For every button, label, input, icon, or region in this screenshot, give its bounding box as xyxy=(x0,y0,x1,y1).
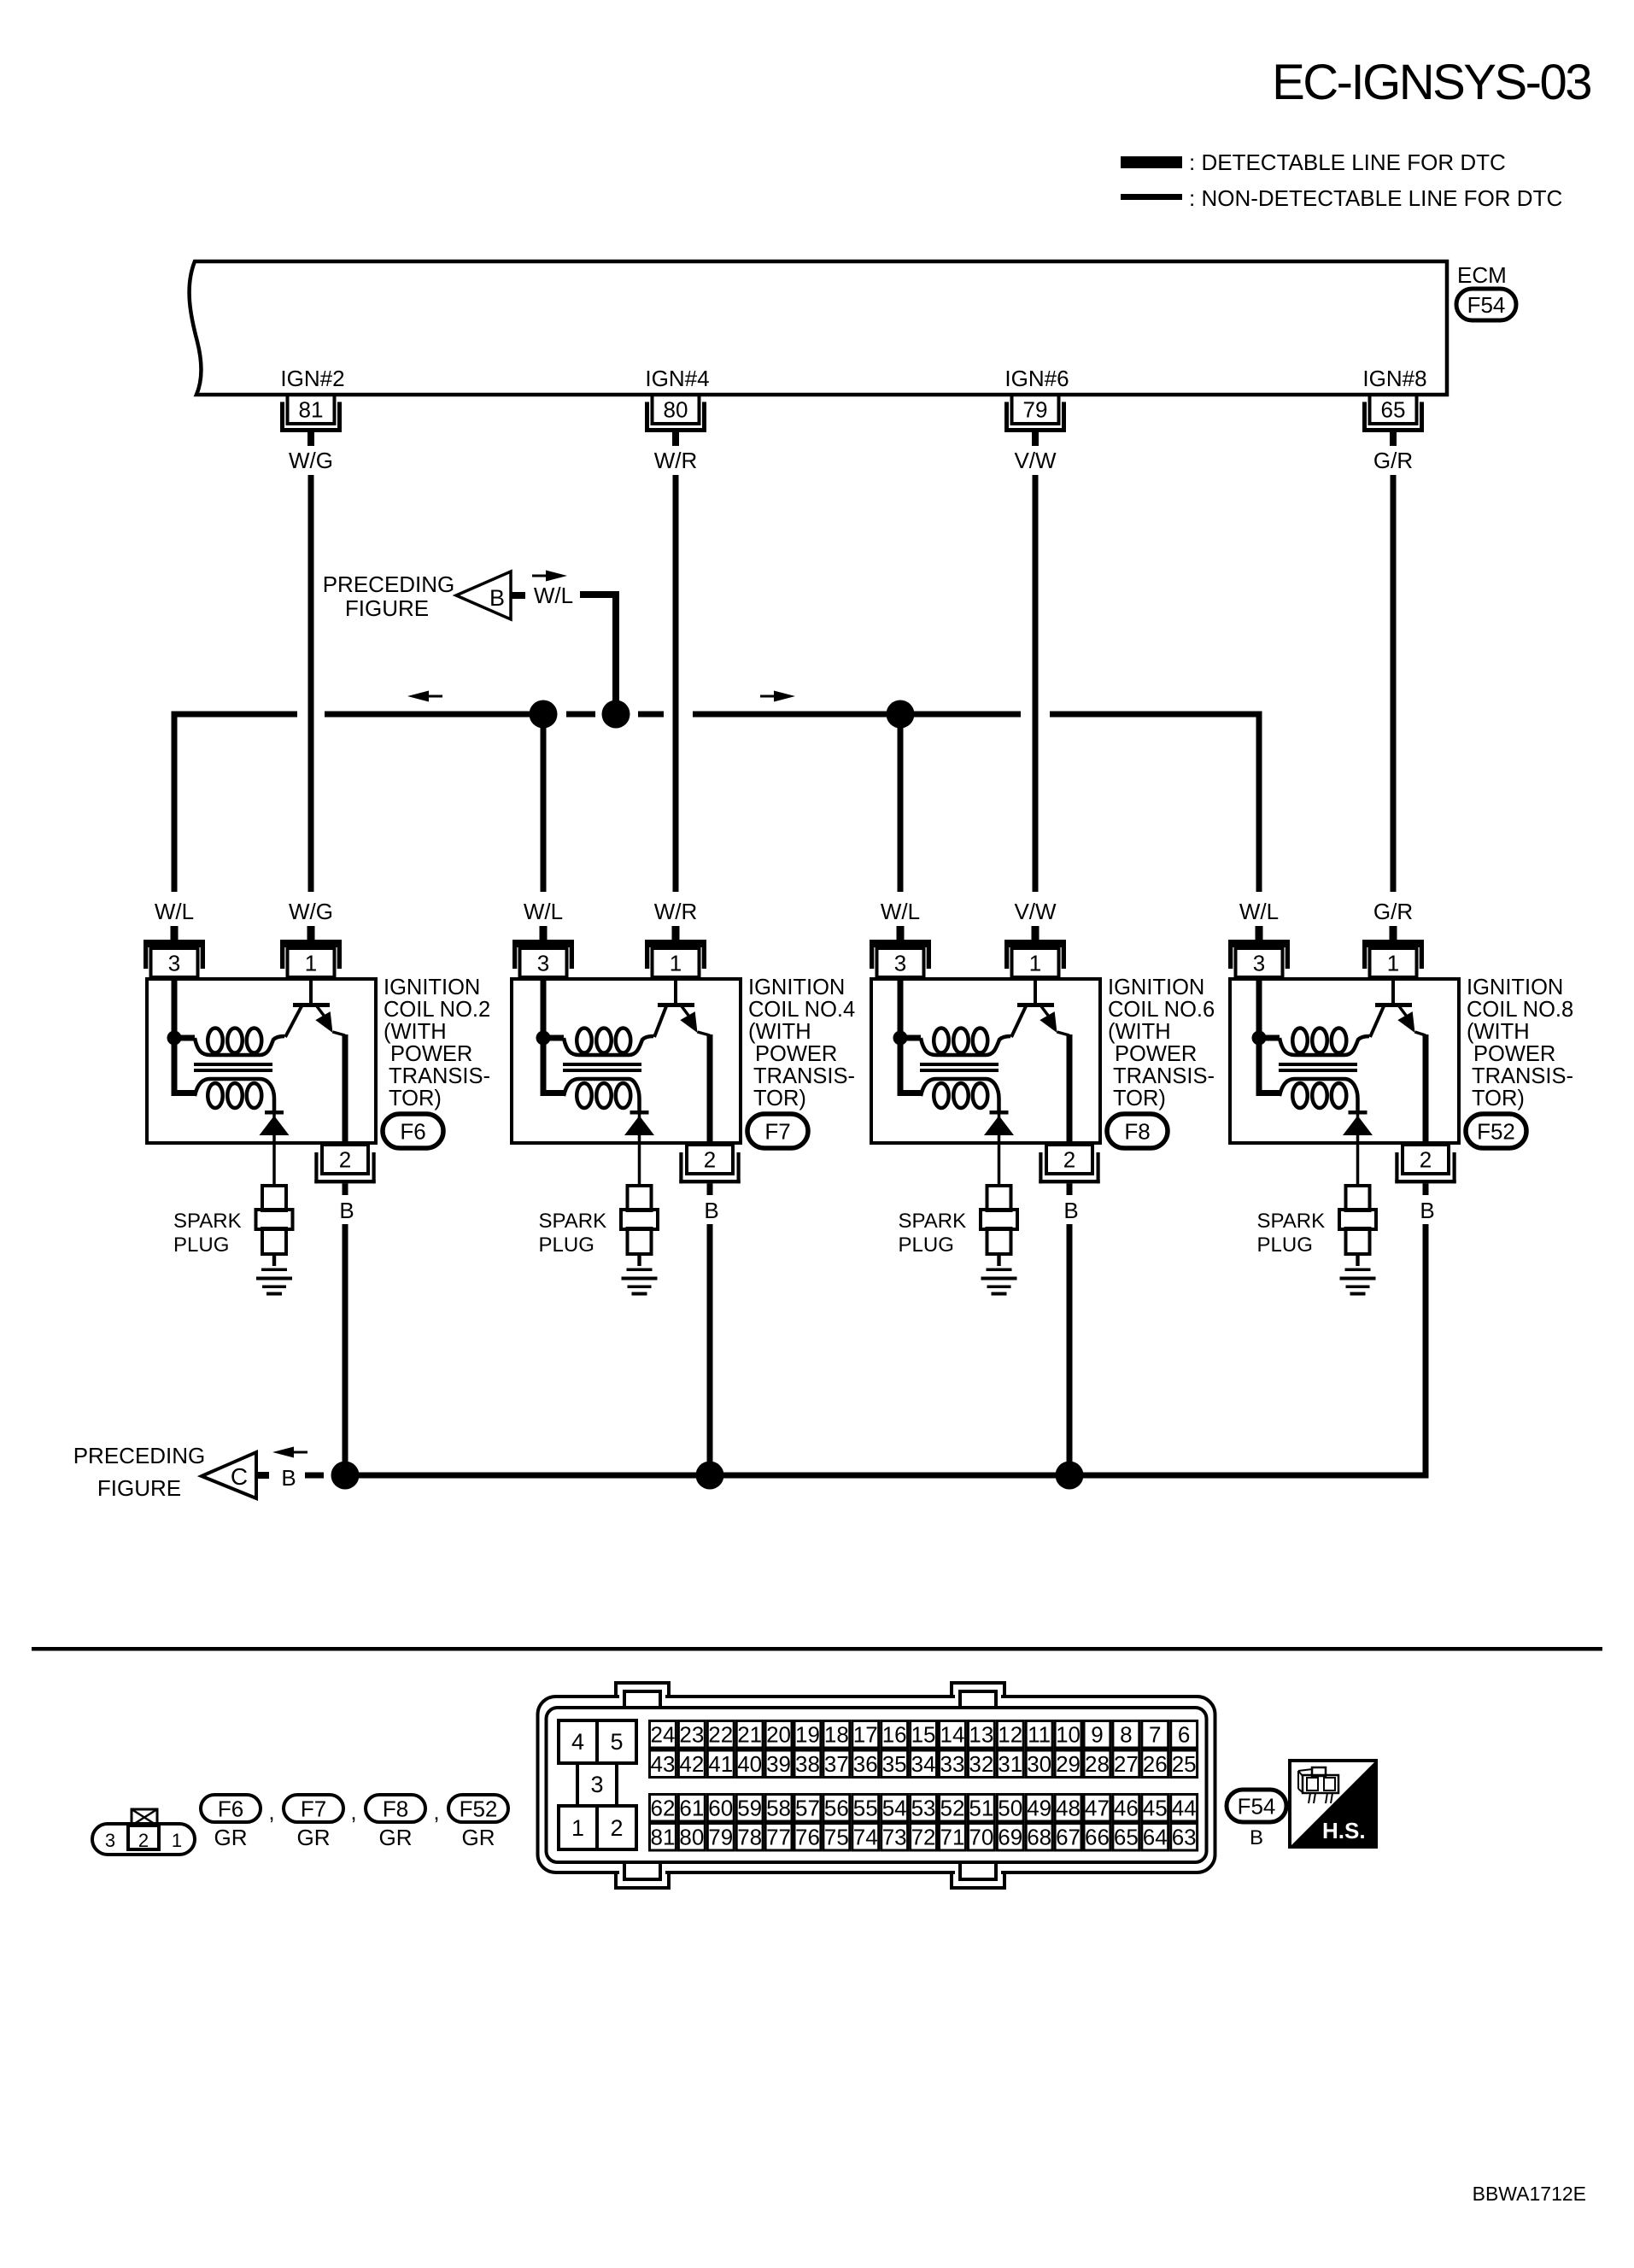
ignition coil No.2 pin 2 xyxy=(314,1145,375,1195)
W/L bus dash xyxy=(566,712,595,718)
svg-text:80: 80 xyxy=(679,1825,704,1850)
ignition coil No.6 pin 2 xyxy=(1039,1145,1099,1195)
svg-text:F6: F6 xyxy=(400,1118,425,1144)
wire color label W/G (above coil) xyxy=(289,899,333,924)
wire color label B (ground bus) xyxy=(281,1465,296,1491)
coil No.4 emitter wire to pin 2 xyxy=(707,1034,713,1143)
ECM connector key cavity 5 xyxy=(597,1720,636,1763)
svg-text:71: 71 xyxy=(940,1825,964,1850)
wire G/R from ECM pin 65 to ignition coil pin 1 xyxy=(1391,475,1397,892)
stub from triangle C xyxy=(255,1472,269,1479)
coil No.6 pin3 internal wire xyxy=(898,979,904,1038)
ignition coil No.2 pin 3 xyxy=(143,926,205,977)
ignition coil No.4 pin 3 xyxy=(512,926,574,977)
svg-text:21: 21 xyxy=(737,1722,762,1748)
svg-text:IGNITION: IGNITION xyxy=(1467,976,1563,999)
svg-text:POWER: POWER xyxy=(1473,1042,1555,1066)
coil No.4 diode D xyxy=(624,1111,654,1186)
svg-text:80: 80 xyxy=(664,397,688,423)
svg-text:W/G: W/G xyxy=(289,899,333,924)
svg-text:54: 54 xyxy=(882,1796,907,1821)
svg-text:F7: F7 xyxy=(301,1796,326,1821)
svg-text:(WITH: (WITH xyxy=(384,1020,447,1044)
wire W/L branch down to coil No.6 pin 3 xyxy=(898,714,904,892)
svg-text:TRANSIS-: TRANSIS- xyxy=(1472,1064,1573,1088)
svg-text:POWER: POWER xyxy=(755,1042,837,1066)
coil No.4 pin3 internal wire xyxy=(541,979,547,1038)
svg-text:40: 40 xyxy=(737,1751,762,1777)
ignition coil No.2 (F6) box xyxy=(147,979,376,1143)
svg-text:35: 35 xyxy=(882,1751,907,1777)
ECM connector bottom tab 2 xyxy=(952,1861,1004,1888)
comma xyxy=(433,1799,439,1825)
coil No.8 pin3 internal wire xyxy=(1256,979,1262,1038)
svg-text:IGN#8: IGN#8 xyxy=(1362,366,1426,391)
svg-text:58: 58 xyxy=(766,1796,791,1821)
wire color label W/L (above coil pin 3 at x=1474) xyxy=(1239,899,1279,924)
svg-text:TOR): TOR) xyxy=(753,1087,806,1111)
coil connector cavity numbers xyxy=(105,1830,182,1851)
ground symbol (spark plug No.2) xyxy=(256,1254,292,1296)
ECM pin 80 (IGN#4) xyxy=(647,395,705,446)
ignition coil No.6 pin 3 xyxy=(870,926,931,977)
coil connector cavity 2 box xyxy=(128,1826,159,1849)
ground bus dash xyxy=(305,1473,324,1479)
connector ref F7 (bottom) xyxy=(284,1795,343,1822)
svg-text:78: 78 xyxy=(737,1825,762,1850)
direction arrow (left) on W/L bus xyxy=(407,691,442,702)
wire color label B (coil No.4) xyxy=(704,1198,718,1223)
svg-text:2: 2 xyxy=(704,1147,716,1173)
svg-text:BBWA1712E: BBWA1712E xyxy=(1473,2183,1586,2205)
ignition coil No.8 pin 1 xyxy=(1362,926,1424,977)
svg-text:SPARK: SPARK xyxy=(899,1210,967,1233)
svg-text:70: 70 xyxy=(969,1825,993,1850)
coil No.6 emitter wire to pin 2 xyxy=(1067,1034,1073,1143)
ground symbol (spark plug No.6) xyxy=(981,1254,1017,1296)
coil No.4 power transistor Q xyxy=(654,979,710,1037)
comma xyxy=(350,1799,356,1825)
svg-text:: DETECTABLE LINE FOR DTC: : DETECTABLE LINE FOR DTC xyxy=(1189,149,1506,175)
svg-text:32: 32 xyxy=(969,1751,993,1777)
svg-text:25: 25 xyxy=(1172,1751,1197,1777)
comma xyxy=(268,1799,274,1825)
svg-text:GR: GR xyxy=(297,1825,331,1850)
svg-text:13: 13 xyxy=(969,1722,993,1748)
svg-text:65: 65 xyxy=(1381,397,1406,423)
svg-text:48: 48 xyxy=(1056,1796,1081,1821)
svg-text:52: 52 xyxy=(940,1796,964,1821)
svg-text:SPARK: SPARK xyxy=(1257,1210,1326,1233)
ground bus segment xyxy=(345,1473,710,1479)
coil No.4 secondary winding xyxy=(541,1038,640,1112)
svg-text:67: 67 xyxy=(1056,1825,1081,1850)
svg-text:POWER: POWER xyxy=(390,1042,472,1066)
svg-text:B: B xyxy=(704,1198,718,1223)
wire B from coil No.8 pin 2 to ground bus (corner) xyxy=(1069,1224,1426,1475)
svg-text:F7: F7 xyxy=(764,1118,790,1144)
wire color GR labels xyxy=(214,1825,495,1850)
svg-text:14: 14 xyxy=(940,1722,964,1748)
svg-text:75: 75 xyxy=(824,1825,849,1850)
coil connector latch tab with X xyxy=(132,1809,157,1826)
svg-text:6: 6 xyxy=(1178,1722,1190,1748)
svg-text:IGN#2: IGN#2 xyxy=(280,366,344,391)
svg-text:(WITH: (WITH xyxy=(1467,1020,1530,1044)
coil No.6 internal junction xyxy=(893,1031,908,1046)
connector ref F52 xyxy=(1466,1114,1526,1148)
svg-text:: NON-DETECTABLE LINE FOR DTC: : NON-DETECTABLE LINE FOR DTC xyxy=(1189,185,1562,211)
ignition coil No.6 name label xyxy=(1108,976,1215,1111)
svg-text:PRECEDING: PRECEDING xyxy=(323,571,455,597)
stub from triangle B xyxy=(511,592,525,599)
svg-text:24: 24 xyxy=(650,1722,675,1748)
svg-text:3: 3 xyxy=(894,951,906,976)
svg-text:F54: F54 xyxy=(1238,1793,1276,1819)
svg-text:G/R: G/R xyxy=(1373,899,1413,924)
svg-text:77: 77 xyxy=(766,1825,791,1850)
coil No.8 internal junction xyxy=(1252,1031,1267,1046)
svg-text:IGNITION: IGNITION xyxy=(1108,976,1204,999)
ECM connector shell outline xyxy=(538,1697,1215,1872)
wire color label W/L (above coil pin 3 at x=1054) xyxy=(881,899,920,924)
ignition coil No.6 (F8) box xyxy=(871,979,1100,1143)
svg-text:F8: F8 xyxy=(1124,1118,1150,1144)
svg-text:60: 60 xyxy=(708,1796,733,1821)
svg-text:53: 53 xyxy=(911,1796,936,1821)
svg-text:12: 12 xyxy=(998,1722,1022,1748)
svg-text:V/W: V/W xyxy=(1014,448,1057,473)
svg-text:TOR): TOR) xyxy=(1113,1087,1166,1111)
svg-text:ECM: ECM xyxy=(1457,262,1507,288)
coil No.2 pin3 internal wire xyxy=(172,979,178,1038)
coil No.4 primary winding xyxy=(543,1029,653,1056)
ignition coil No.2 pin 1 xyxy=(280,926,342,977)
svg-text:81: 81 xyxy=(650,1825,675,1850)
W/L bus segment (to V/W crossing) xyxy=(693,712,1021,718)
svg-text:B: B xyxy=(489,585,505,611)
connector ref F8 xyxy=(1107,1114,1168,1148)
preceding figure note (B) text xyxy=(323,571,455,621)
svg-text:POWER: POWER xyxy=(1115,1042,1197,1066)
ground bus segment xyxy=(710,1473,1069,1479)
svg-text:34: 34 xyxy=(911,1751,936,1777)
svg-text:79: 79 xyxy=(708,1825,733,1850)
svg-text:16: 16 xyxy=(882,1722,907,1748)
W/L bus segment (gap at W/G crossing) xyxy=(325,712,543,718)
svg-text:GR: GR xyxy=(379,1825,413,1850)
off-page connector triangle B xyxy=(456,571,511,619)
ignition coil No.4 name label xyxy=(748,976,855,1111)
svg-text:10: 10 xyxy=(1056,1722,1081,1748)
wire B from coil No.4 pin 2 to ground bus xyxy=(707,1224,713,1475)
svg-text:44: 44 xyxy=(1172,1796,1197,1821)
ignition coil No.8 (F52) box xyxy=(1230,979,1459,1143)
svg-text:29: 29 xyxy=(1056,1751,1081,1777)
svg-text:F52: F52 xyxy=(1477,1118,1515,1144)
svg-text:B: B xyxy=(1420,1198,1434,1223)
W/L bus dash xyxy=(638,712,664,718)
ECM terminal label IGN#2 xyxy=(280,366,344,391)
coil No.2 power transistor Q xyxy=(285,979,345,1037)
spark plug (coil No.6) xyxy=(981,1186,1017,1254)
svg-text:IGNITION: IGNITION xyxy=(384,976,480,999)
svg-text:27: 27 xyxy=(1114,1751,1139,1777)
svg-text:38: 38 xyxy=(795,1751,820,1777)
ground symbol (spark plug No.8) xyxy=(1340,1254,1376,1296)
ignition coil No.4 (F7) box xyxy=(512,979,741,1143)
ignition coil No.2 name label xyxy=(384,976,490,1111)
coil No.6 power transistor Q xyxy=(1011,979,1069,1037)
svg-text:B: B xyxy=(339,1198,354,1223)
ECM pin 65 (IGN#8) xyxy=(1365,395,1422,446)
svg-text:TOR): TOR) xyxy=(1472,1087,1525,1111)
ignition coil No.4 pin 2 xyxy=(679,1145,740,1195)
connector ref F8 (bottom) xyxy=(366,1795,425,1822)
svg-text:73: 73 xyxy=(882,1825,907,1850)
svg-text:1: 1 xyxy=(172,1830,182,1851)
svg-text:81: 81 xyxy=(299,397,324,423)
legend non-detectable line text xyxy=(1189,185,1562,211)
coil No.6 transformer core xyxy=(920,1063,999,1072)
svg-text:64: 64 xyxy=(1143,1825,1168,1850)
coil No.4 internal junction xyxy=(536,1031,551,1046)
svg-text:B: B xyxy=(281,1465,296,1491)
ECM connector key cavity 3 xyxy=(577,1763,617,1806)
ECM box (torn left edge) xyxy=(190,261,1447,395)
ECM terminal label IGN#6 xyxy=(1004,366,1069,391)
svg-text:,: , xyxy=(268,1799,274,1825)
legend non-detectable line sample bar xyxy=(1121,194,1182,200)
wire color label B (F54) xyxy=(1250,1826,1263,1849)
ECM connector top tab 1 xyxy=(616,1683,669,1708)
svg-text:3: 3 xyxy=(537,951,549,976)
svg-text:B: B xyxy=(1250,1826,1263,1849)
svg-text:PLUG: PLUG xyxy=(539,1234,594,1257)
wire W/G from ECM pin 81 to ignition coil pin 1 xyxy=(308,475,314,892)
ECM terminal label IGN#8 xyxy=(1362,366,1426,391)
spark plug (coil No.6) label xyxy=(899,1210,967,1257)
wire B from coil No.2 pin 2 to ground bus xyxy=(343,1224,348,1475)
connector ref F6 xyxy=(383,1114,443,1148)
figure code BBWA1712E xyxy=(1473,2183,1586,2205)
data monitor H.S. badge xyxy=(1290,1761,1376,1847)
svg-text:W/L: W/L xyxy=(881,899,920,924)
ECM connector bottom tab 1 xyxy=(616,1861,669,1888)
svg-text:4: 4 xyxy=(571,1729,584,1755)
svg-text:TRANSIS-: TRANSIS- xyxy=(753,1064,855,1088)
svg-text:18: 18 xyxy=(824,1722,849,1748)
svg-text:30: 30 xyxy=(1027,1751,1051,1777)
svg-text:W/L: W/L xyxy=(1239,899,1279,924)
svg-text:W/L: W/L xyxy=(524,899,563,924)
svg-text:COIL NO.2: COIL NO.2 xyxy=(384,998,490,1022)
svg-text:63: 63 xyxy=(1172,1825,1197,1850)
svg-text:47: 47 xyxy=(1085,1796,1110,1821)
ECM terminal label IGN#4 xyxy=(645,366,709,391)
svg-text:PLUG: PLUG xyxy=(1257,1234,1313,1257)
svg-text:SPARK: SPARK xyxy=(173,1210,242,1233)
svg-text:11: 11 xyxy=(1028,1722,1051,1748)
svg-text:72: 72 xyxy=(911,1825,936,1850)
svg-text:3: 3 xyxy=(105,1830,115,1851)
spark plug (coil No.8) label xyxy=(1257,1210,1326,1257)
junction ground bus / coil No.4 xyxy=(696,1462,724,1490)
connector ref F52 (bottom) xyxy=(448,1795,508,1822)
svg-text:GR: GR xyxy=(214,1825,248,1850)
svg-text:TRANSIS-: TRANSIS- xyxy=(389,1064,490,1088)
svg-text:W/R: W/R xyxy=(654,448,698,473)
wire W/L branch down to coil No.4 pin 3 xyxy=(541,714,547,892)
coil No.4 transformer core xyxy=(563,1063,641,1072)
svg-text:TRANSIS-: TRANSIS- xyxy=(1113,1064,1215,1088)
svg-text:33: 33 xyxy=(940,1751,964,1777)
direction arrow (right) above W/L xyxy=(532,571,567,582)
coil No.2 emitter wire to pin 2 xyxy=(343,1034,348,1143)
coil No.6 secondary winding xyxy=(898,1038,999,1112)
coil No.8 transformer core xyxy=(1279,1063,1357,1072)
ignition coil No.8 pin 2 xyxy=(1395,1145,1455,1195)
svg-text:15: 15 xyxy=(911,1722,936,1748)
spark plug (coil No.2) label xyxy=(173,1210,242,1257)
svg-text:49: 49 xyxy=(1027,1796,1051,1821)
svg-text:41: 41 xyxy=(708,1751,733,1777)
svg-text:G/R: G/R xyxy=(1373,448,1413,473)
coil No.6 diode D xyxy=(984,1111,1014,1186)
svg-text:68: 68 xyxy=(1027,1825,1051,1850)
ground symbol (spark plug No.4) xyxy=(622,1254,658,1296)
connector ref F7 xyxy=(747,1114,808,1148)
svg-text:GR: GR xyxy=(462,1825,495,1850)
preceding figure note (C) text xyxy=(73,1443,206,1501)
svg-text:2: 2 xyxy=(339,1147,351,1173)
svg-text:9: 9 xyxy=(1091,1722,1103,1748)
wire color label W/L (preceding figure) xyxy=(534,583,573,608)
ignition coil No.6 pin 1 xyxy=(1004,926,1066,977)
svg-text:SPARK: SPARK xyxy=(539,1210,607,1233)
svg-text:IGN#6: IGN#6 xyxy=(1004,366,1069,391)
svg-text:66: 66 xyxy=(1085,1825,1110,1850)
wire color label W/R (top) xyxy=(654,448,698,473)
svg-text:43: 43 xyxy=(650,1751,675,1777)
svg-text:PLUG: PLUG xyxy=(173,1234,229,1257)
coil No.8 secondary winding xyxy=(1256,1038,1358,1112)
wire color label G/R (above coil) xyxy=(1373,899,1413,924)
svg-text:W/R: W/R xyxy=(654,899,698,924)
coil No.2 primary winding xyxy=(174,1029,284,1056)
coil connector face (3-2-1) body xyxy=(92,1824,195,1855)
ECM pin 81 (IGN#2) xyxy=(283,395,340,446)
wire color label V/W (above coil) xyxy=(1014,899,1057,924)
wire V/W from ECM pin 79 to ignition coil pin 1 xyxy=(1033,475,1039,892)
wire color label B (coil No.2) xyxy=(339,1198,354,1223)
coil No.6 primary winding xyxy=(900,1029,1010,1056)
svg-text:COIL NO.8: COIL NO.8 xyxy=(1467,998,1573,1022)
svg-text:36: 36 xyxy=(853,1751,878,1777)
coil No.2 diode D xyxy=(260,1111,290,1186)
off-page connector triangle C xyxy=(202,1452,256,1498)
svg-text:79: 79 xyxy=(1023,397,1048,423)
svg-text:PLUG: PLUG xyxy=(899,1234,954,1257)
ECM connector key cavity 1 xyxy=(559,1806,597,1849)
wire color label W/G (top) xyxy=(289,448,333,473)
svg-text:H.S.: H.S. xyxy=(1322,1818,1366,1843)
coil No.2 transformer core xyxy=(194,1063,272,1072)
svg-text:57: 57 xyxy=(795,1796,820,1821)
connector ref F54 (ECM) xyxy=(1456,289,1516,320)
svg-text:39: 39 xyxy=(766,1751,791,1777)
ECM pin 79 (IGN#6) xyxy=(1007,395,1064,446)
ignition coil No.8 pin 3 xyxy=(1228,926,1290,977)
svg-text:V/W: V/W xyxy=(1014,899,1057,924)
svg-text:22: 22 xyxy=(708,1722,733,1748)
svg-text:IGNITION: IGNITION xyxy=(748,976,845,999)
direction arrow (left) on ground bus xyxy=(272,1447,307,1458)
svg-text:26: 26 xyxy=(1143,1751,1168,1777)
svg-text:(WITH: (WITH xyxy=(748,1020,811,1044)
ECM connector top tab 2 xyxy=(952,1683,1004,1708)
svg-text:1: 1 xyxy=(1029,951,1041,976)
spark plug (coil No.4) xyxy=(621,1186,658,1254)
svg-text:FIGURE: FIGURE xyxy=(345,595,429,621)
svg-text:1: 1 xyxy=(670,951,682,976)
svg-text:5: 5 xyxy=(610,1729,623,1755)
svg-text:COIL NO.6: COIL NO.6 xyxy=(1108,998,1215,1022)
title EC-IGNSYS-03 xyxy=(1272,55,1590,110)
svg-text:2: 2 xyxy=(610,1815,623,1841)
svg-text:1: 1 xyxy=(305,951,317,976)
wire color label B (coil No.8) xyxy=(1420,1198,1434,1223)
svg-text:F6: F6 xyxy=(218,1796,243,1821)
svg-text:FIGURE: FIGURE xyxy=(97,1475,181,1501)
svg-text:2: 2 xyxy=(1063,1147,1075,1173)
svg-text:W/L: W/L xyxy=(155,899,194,924)
separator rule xyxy=(32,1647,1602,1651)
svg-text:46: 46 xyxy=(1114,1796,1139,1821)
svg-text:W/G: W/G xyxy=(289,448,333,473)
svg-text:PRECEDING: PRECEDING xyxy=(73,1443,206,1468)
svg-text:51: 51 xyxy=(969,1796,993,1821)
svg-text:65: 65 xyxy=(1114,1825,1139,1850)
svg-text:3: 3 xyxy=(590,1772,603,1797)
spark plug (coil No.2) xyxy=(256,1186,293,1254)
ignition coil No.8 name label xyxy=(1467,976,1573,1111)
junction ground bus / coil No.6 xyxy=(1056,1462,1084,1490)
coil No.8 power transistor Q xyxy=(1370,979,1426,1037)
svg-text:F8: F8 xyxy=(383,1796,408,1821)
ignition coil No.4 pin 1 xyxy=(645,926,706,977)
wire color label V/W (top) xyxy=(1014,448,1057,473)
direction arrow (right) on W/L bus xyxy=(760,691,795,702)
wire color label B (coil No.6) xyxy=(1063,1198,1078,1223)
svg-text:59: 59 xyxy=(737,1796,762,1821)
wire color label W/L (above coil pin 3 at x=636) xyxy=(524,899,563,924)
wire W/R from ECM pin 80 to ignition coil pin 1 xyxy=(673,475,679,892)
svg-text:62: 62 xyxy=(650,1796,675,1821)
svg-text:19: 19 xyxy=(795,1722,820,1748)
svg-text:2: 2 xyxy=(1420,1147,1432,1173)
ECM label xyxy=(1457,262,1507,288)
coil No.2 internal junction xyxy=(167,1031,182,1046)
svg-text:(WITH: (WITH xyxy=(1108,1020,1171,1044)
junction of W/L bus and coil No.6 branch xyxy=(887,700,915,729)
svg-text:B: B xyxy=(1063,1198,1078,1223)
svg-text:45: 45 xyxy=(1143,1796,1168,1821)
svg-text:IGN#4: IGN#4 xyxy=(645,366,709,391)
connector ref F6 (bottom) xyxy=(201,1795,261,1822)
svg-text:1: 1 xyxy=(571,1815,584,1841)
ECM connector key cavity 4 xyxy=(559,1720,597,1763)
